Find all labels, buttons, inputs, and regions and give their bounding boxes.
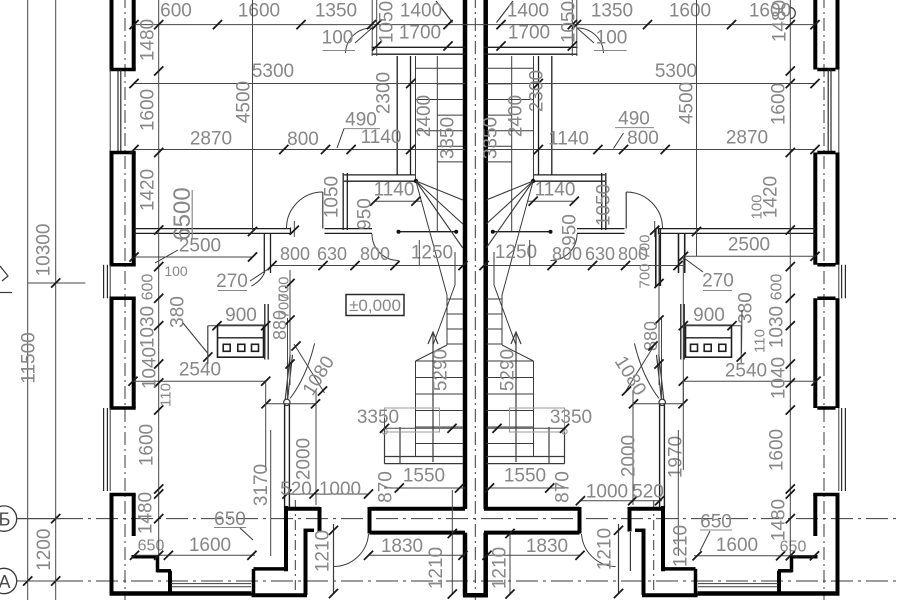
- window W3 left (projecting sill): [103, 408, 105, 491]
- svg-text:1200: 1200: [34, 529, 55, 571]
- svg-text:870: 870: [376, 471, 397, 503]
- dim 1830 right: [486, 554, 580, 556]
- dim ticks 1700 left: [372, 41, 381, 50]
- partition pier right inner: [655, 229, 657, 286]
- svg-text:1400: 1400: [507, 1, 549, 22]
- ext line x=683.3 right vent: [682, 256, 684, 405]
- wall right exterior corner B4R: [813, 493, 839, 497]
- dim small row y404 left: [266, 403, 316, 405]
- stairR winder fan: [531, 179, 535, 183]
- svg-text:2300: 2300: [527, 70, 548, 112]
- ext verticals stair dims right: [529, 240, 531, 265]
- door D-entry right swing arc: [582, 534, 616, 567]
- svg-text:1830: 1830: [526, 536, 568, 557]
- svg-text:1250: 1250: [411, 243, 453, 264]
- door D3R kitchen (right) hinge+leaf+arc: [659, 399, 665, 405]
- vent block right: [686, 325, 732, 357]
- stair direction arrow: [432, 334, 434, 462]
- svg-text:5290: 5290: [498, 349, 519, 391]
- partition P2 (left) room/hall: [134, 228, 291, 230]
- stairR direction arrow: [515, 334, 517, 462]
- svg-text:1140: 1140: [374, 180, 415, 201]
- svg-text:650: 650: [138, 538, 165, 555]
- stairR hatch opening (gray): [510, 408, 565, 432]
- vent block left: [218, 325, 264, 357]
- axis B horizontal (dash-dot): [17, 518, 61, 520]
- overall dim line 11500: [27, 0, 29, 600]
- stairR lower flight treads: [486, 360, 533, 362]
- dim row2 5300 left: [134, 83, 465, 85]
- svg-text:3350: 3350: [481, 117, 502, 159]
- left wall chain ticks: [154, 20, 163, 29]
- svg-text:А: А: [0, 572, 11, 592]
- partition P7R pier at vent (right): [683, 304, 685, 360]
- svg-text:870: 870: [553, 471, 574, 503]
- partition P6R pier (right): [684, 233, 686, 273]
- party wall left leaf: [463, 0, 468, 509]
- dim row3 2870 right: [486, 149, 815, 151]
- stairR top direction diagonal: [497, 1, 514, 23]
- partition P5 stair enclosure west (left): [396, 56, 398, 175]
- svg-text:600: 600: [140, 274, 157, 301]
- svg-text:1480: 1480: [138, 19, 159, 61]
- overall dim line 10300: [55, 0, 57, 600]
- svg-text:1050: 1050: [594, 184, 615, 226]
- stair west edge line: [415, 56, 417, 181]
- svg-text:270: 270: [702, 271, 734, 292]
- dim 1140 mid right + line: [527, 200, 574, 202]
- svg-text:1600: 1600: [189, 535, 231, 556]
- dim row1 ticks: [129, 20, 138, 29]
- left margin arrow mark: [0, 266, 8, 281]
- svg-text:2300: 2300: [374, 72, 395, 114]
- svg-text:4500: 4500: [677, 82, 698, 124]
- wall right exterior pier B2R: [836, 153, 840, 265]
- dim 3350 bottom left: [385, 427, 463, 429]
- svg-text:1040: 1040: [140, 347, 161, 389]
- svg-text:490: 490: [345, 110, 377, 131]
- svg-text:700: 700: [637, 234, 654, 259]
- svg-text:5290: 5290: [431, 349, 452, 391]
- party wall bottom cap: [463, 593, 488, 598]
- stair walk line: [433, 285, 455, 345]
- svg-text:100: 100: [322, 28, 354, 49]
- svg-text:1600: 1600: [767, 429, 788, 471]
- stairR bottom landing edges: [486, 456, 565, 458]
- svg-text:380: 380: [168, 296, 189, 328]
- level mark box +-0,000: [346, 295, 404, 316]
- stair narrow treads: [447, 298, 463, 300]
- ext line x=207.8 vent left: [207, 326, 209, 364]
- svg-text:10300: 10300: [34, 224, 55, 277]
- svg-text:11500: 11500: [19, 332, 40, 383]
- svg-text:1830: 1830: [381, 536, 423, 557]
- wall vestibule west (left unit): [284, 403, 286, 508]
- dim chain 700/700/880 right: [658, 235, 660, 385]
- ext line left wall chain: [158, 0, 160, 556]
- door D2 jamb ext + tick: [293, 221, 295, 237]
- wall axis-B inner (right unit): [484, 531, 580, 535]
- svg-text:900: 900: [693, 305, 725, 326]
- window W1 left (plan lines): [109, 70, 111, 153]
- wall pier door-left: [318, 507, 322, 532]
- dim 520/1000 left: [287, 493, 369, 495]
- dim 1080 diagonal left: [294, 344, 325, 393]
- stair top direction diagonal: [436, 1, 453, 23]
- svg-text:800: 800: [360, 244, 390, 264]
- svg-text:2870: 2870: [726, 128, 768, 149]
- svg-text:5300: 5300: [655, 61, 697, 82]
- window W1 right: [838, 70, 840, 153]
- window W2 left (projecting sill): [103, 265, 105, 299]
- dim 900 right: [683, 325, 741, 327]
- svg-text:2000: 2000: [619, 435, 640, 477]
- door D1 arc (left, top partition): [346, 28, 372, 53]
- svg-text:1700: 1700: [399, 23, 441, 44]
- svg-text:1210: 1210: [671, 525, 692, 567]
- ext line right wall chain: [789, 0, 791, 556]
- hook mark near right wall chain: [790, 8, 795, 19]
- svg-text:1210: 1210: [426, 547, 447, 589]
- svg-text:100: 100: [164, 263, 188, 279]
- svg-text:1600: 1600: [669, 1, 711, 22]
- svg-text:1480: 1480: [769, 499, 790, 541]
- svg-text:1600: 1600: [716, 535, 758, 556]
- stair hatch opening (gray): [385, 408, 440, 432]
- svg-text:520: 520: [280, 479, 312, 500]
- svg-text:380: 380: [736, 292, 757, 324]
- dim 2540 left: [133, 380, 266, 382]
- svg-text:1550: 1550: [504, 466, 546, 487]
- ext lines at party wall bottom: [451, 533, 453, 595]
- axis porch left (dash-dot): [294, 500, 296, 600]
- stair winder edges: [416, 181, 447, 295]
- svg-text:3350: 3350: [438, 117, 459, 159]
- partition P6 pier (left): [263, 233, 265, 273]
- ext line 1970 right: [677, 430, 679, 556]
- stairR narrow treads: [486, 298, 502, 300]
- axis circle B: [0, 506, 17, 531]
- svg-text:1550: 1550: [403, 466, 445, 487]
- door arc at pier P6: [252, 273, 265, 286]
- stair mid stringer: [436, 56, 438, 231]
- svg-text:700: 700: [637, 263, 654, 288]
- leader for 2500: [155, 250, 178, 263]
- dim 1140 mid left + line: [375, 200, 422, 202]
- svg-text:950: 950: [355, 198, 376, 230]
- svg-text:5300: 5300: [252, 61, 294, 82]
- partition P5R stair enclosure west (right): [551, 56, 553, 175]
- dim ticks 1700 right: [496, 41, 505, 50]
- stairR winder edges: [502, 181, 533, 295]
- svg-text:600: 600: [160, 1, 192, 22]
- svg-text:1600: 1600: [769, 83, 790, 125]
- wall bottom band (terrace front): [110, 591, 252, 596]
- dim 2500 left: [134, 256, 253, 258]
- wall left exterior pier B1: [110, 0, 114, 70]
- door D-entry left leaf: [333, 524, 335, 594]
- porch right unit walls: [662, 567, 696, 571]
- wall vestibule top-right segment: [368, 507, 372, 534]
- svg-text:950: 950: [560, 214, 581, 246]
- ext line x=252.5 (4500): [252, 0, 254, 230]
- svg-text:1700: 1700: [508, 23, 550, 44]
- svg-text:1210: 1210: [490, 547, 511, 589]
- dim 2500 right: [684, 255, 816, 257]
- door D1R arc (right, top partition): [578, 28, 604, 53]
- svg-text:110: 110: [752, 329, 769, 353]
- svg-text:2500: 2500: [179, 236, 221, 257]
- wall left exterior pier B3: [110, 298, 114, 408]
- svg-text:100: 100: [596, 28, 628, 49]
- svg-text:1000: 1000: [586, 482, 628, 503]
- stairR mid stringer: [511, 56, 513, 231]
- wall vestibule top-left segment: [284, 507, 320, 511]
- wall vestibule top-left segment right: [630, 507, 666, 511]
- svg-text:1480: 1480: [770, 0, 791, 42]
- svg-text:110: 110: [158, 383, 175, 407]
- party wall right leaf: [483, 0, 488, 509]
- axis line center (party wall centerline, dash-dot): [474, 0, 476, 600]
- svg-text:650: 650: [214, 509, 246, 530]
- dim 1080 diagonal right: [625, 344, 656, 393]
- svg-text:1030: 1030: [138, 306, 159, 348]
- axis line 6 (right wall centerline, dash-dot): [823, 0, 825, 600]
- svg-text:2540: 2540: [725, 361, 767, 382]
- svg-text:1250: 1250: [495, 242, 537, 263]
- door D3 kitchen (left) hinge+leaf+arc: [284, 399, 290, 405]
- axis A horizontal (dash-dot): [17, 580, 61, 582]
- dim row3 2870 left: [134, 149, 465, 151]
- window W3 right (projecting sill): [844, 408, 846, 491]
- wall vestibule top-right segment right: [578, 507, 582, 534]
- partition P3R vertical (right): [605, 173, 607, 230]
- door D2R jamb ext + tick: [654, 221, 656, 237]
- svg-text:1040: 1040: [769, 357, 790, 399]
- svg-text:1970: 1970: [666, 436, 687, 478]
- svg-text:1600: 1600: [137, 424, 158, 466]
- svg-text:270: 270: [216, 271, 248, 292]
- dim 3350 bottom right: [486, 427, 564, 429]
- svg-text:800: 800: [287, 129, 319, 150]
- stair lower flight treads: [416, 360, 463, 362]
- svg-text:1210: 1210: [313, 530, 334, 572]
- dim chain 700/700/880 left: [289, 270, 291, 385]
- wall axis-B inner (left unit): [370, 531, 466, 535]
- dim 1550 left: [384, 487, 465, 489]
- door D2R (right) leaf+arc: [625, 192, 627, 229]
- svg-text:1140: 1140: [535, 180, 576, 201]
- svg-text:880: 880: [641, 321, 661, 351]
- dim 900 left: [208, 325, 266, 327]
- axis porch right (dash-dot): [653, 500, 655, 600]
- svg-text:600: 600: [769, 274, 786, 301]
- ext line y283 left margin: [28, 282, 86, 284]
- partition P4R horizontal hall (right): [534, 174, 605, 176]
- svg-text:900: 900: [225, 305, 257, 326]
- svg-text:880: 880: [270, 310, 290, 340]
- partition P4 horizontal hall (left): [344, 174, 415, 176]
- stairR walk line: [494, 285, 516, 345]
- ext line 3170 left: [270, 430, 272, 556]
- svg-text:1050: 1050: [377, 1, 398, 43]
- svg-text:2500: 2500: [728, 235, 770, 256]
- svg-text:3350: 3350: [550, 407, 592, 428]
- door D-entry right leaf (double): [618, 524, 620, 594]
- dim 520/1000 right: [580, 500, 662, 502]
- terrace steps (thin double line): [171, 583, 251, 585]
- stairR upper flight treads: [486, 67, 533, 69]
- dim 1830 left: [369, 554, 466, 556]
- partition P1 stair-hall top (left): [372, 46, 466, 48]
- svg-text:4500: 4500: [234, 81, 255, 123]
- stair upper flight treads: [416, 67, 463, 69]
- svg-text:800: 800: [627, 128, 659, 149]
- svg-text:490: 490: [618, 109, 650, 130]
- svg-text:630: 630: [317, 244, 347, 264]
- wall left exterior corner B4: [110, 493, 136, 497]
- svg-text:100: 100: [749, 194, 766, 219]
- door D4R (right) arc: [551, 234, 578, 261]
- dim 1550 right: [486, 487, 565, 489]
- overall chain ticks: [51, 278, 60, 287]
- dim small row y404 right: [633, 403, 683, 405]
- dim row2 5300 right: [486, 83, 815, 85]
- axis circle connector lines: [17, 518, 61, 520]
- svg-text:800: 800: [552, 244, 582, 264]
- wall right exterior pier B1R: [836, 0, 840, 70]
- wall pier door-right: [628, 507, 632, 532]
- dim row1 line: [134, 24, 815, 26]
- svg-text:520: 520: [632, 482, 664, 503]
- stair bottom landing edges: [384, 456, 463, 458]
- dim row 800-630-800-1250 left: [272, 265, 463, 267]
- svg-text:1600: 1600: [238, 1, 280, 22]
- dim row 1250-800-630-800 right: [486, 265, 685, 267]
- svg-text:2540: 2540: [179, 360, 221, 381]
- svg-text:3170: 3170: [251, 464, 272, 506]
- svg-text:Б: Б: [0, 510, 10, 530]
- stairR west edge line: [533, 56, 535, 181]
- stair lower flight west edge: [415, 361, 417, 456]
- svg-text:1050: 1050: [322, 176, 343, 218]
- svg-text:1420: 1420: [138, 169, 159, 211]
- door D2 (left) leaf+arc: [322, 192, 324, 229]
- dim 2540 right: [683, 380, 816, 382]
- wall vestibule west (right unit): [663, 403, 665, 508]
- svg-text:650: 650: [700, 512, 732, 533]
- svg-text:1210: 1210: [595, 528, 616, 570]
- partition P2R (right) room/hall: [659, 228, 816, 230]
- svg-text:1600: 1600: [138, 89, 159, 131]
- ext verticals stair dims left: [418, 240, 420, 265]
- svg-text:3350: 3350: [357, 407, 399, 428]
- svg-text:1140: 1140: [548, 129, 589, 150]
- svg-text:1000: 1000: [319, 479, 361, 500]
- wall right bottom step: [791, 555, 818, 559]
- dim 650/1600 bottom left: [134, 554, 255, 556]
- svg-text:630: 630: [585, 244, 615, 264]
- window W2 right (projecting sill): [844, 265, 846, 299]
- svg-text:2400: 2400: [506, 95, 527, 137]
- svg-text:2400: 2400: [414, 95, 435, 137]
- svg-text:2870: 2870: [190, 129, 232, 150]
- svg-text:±0,000: ±0,000: [349, 296, 401, 315]
- ext line x=696.5 (4500 right): [696, 0, 698, 256]
- svg-text:2000: 2000: [294, 438, 315, 480]
- svg-text:1050: 1050: [559, 1, 580, 43]
- svg-text:1400: 1400: [400, 1, 442, 22]
- wall bottom band right (terrace front): [698, 591, 840, 596]
- partition P3 vertical (left): [342, 173, 344, 230]
- stair winder fan: [414, 179, 418, 183]
- partition P7 pier at vent (left): [264, 304, 266, 360]
- svg-text:1030: 1030: [767, 306, 788, 348]
- door D4 (left) arc: [372, 234, 399, 261]
- axis circle A: [0, 568, 17, 593]
- dim 1600/650 bottom right: [694, 555, 815, 557]
- ext line vestibule left x=316: [451, 490, 453, 533]
- terrace steps right: [698, 583, 778, 585]
- right wall chain ticks: [786, 20, 795, 29]
- axis line 1 (left wall centerline, dash-dot): [124, 0, 126, 600]
- porch left unit walls: [254, 567, 288, 571]
- stairR lower flight west edge: [533, 361, 535, 456]
- wall right exterior pier B3R: [836, 298, 840, 408]
- svg-text:1350: 1350: [591, 1, 633, 22]
- door D-entry left swing arc: [334, 534, 369, 567]
- wall left exterior pier B2: [110, 153, 114, 265]
- svg-text:1480: 1480: [136, 492, 157, 534]
- partition P1R stair-hall top (right): [484, 46, 578, 48]
- svg-text:1350: 1350: [315, 1, 357, 22]
- wall left bottom step: [132, 555, 159, 559]
- svg-text:800: 800: [280, 244, 310, 264]
